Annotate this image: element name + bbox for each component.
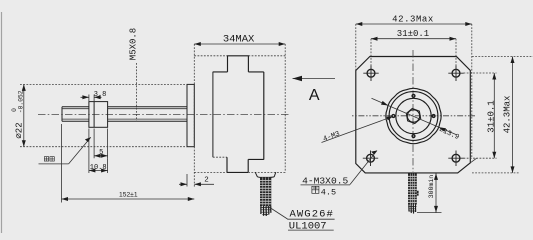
svg-text:31±0.1: 31±0.1: [487, 100, 497, 132]
svg-text:⌀22: ⌀22: [14, 122, 24, 138]
svg-text:UL1007: UL1007: [289, 221, 327, 233]
svg-text:31±0.1: 31±0.1: [397, 29, 429, 39]
svg-text:3.8: 3.8: [94, 91, 107, 99]
svg-text:A: A: [309, 87, 320, 104]
svg-text:M5X0.8: M5X0.8: [129, 28, 139, 60]
svg-text:4.5: 4.5: [321, 188, 336, 198]
svg-text:152±1: 152±1: [119, 191, 138, 198]
svg-text:10.8: 10.8: [90, 164, 107, 172]
svg-text:-0.052: -0.052: [17, 90, 24, 113]
svg-text:42.3Max: 42.3Max: [392, 14, 434, 24]
svg-text:5: 5: [99, 149, 103, 157]
svg-text:34MAX: 34MAX: [223, 34, 255, 46]
svg-text:2: 2: [204, 177, 209, 185]
svg-text:42.3Max: 42.3Max: [503, 96, 513, 134]
svg-text:AWG26#: AWG26#: [290, 209, 334, 221]
svg-text:300min: 300min: [428, 175, 435, 199]
